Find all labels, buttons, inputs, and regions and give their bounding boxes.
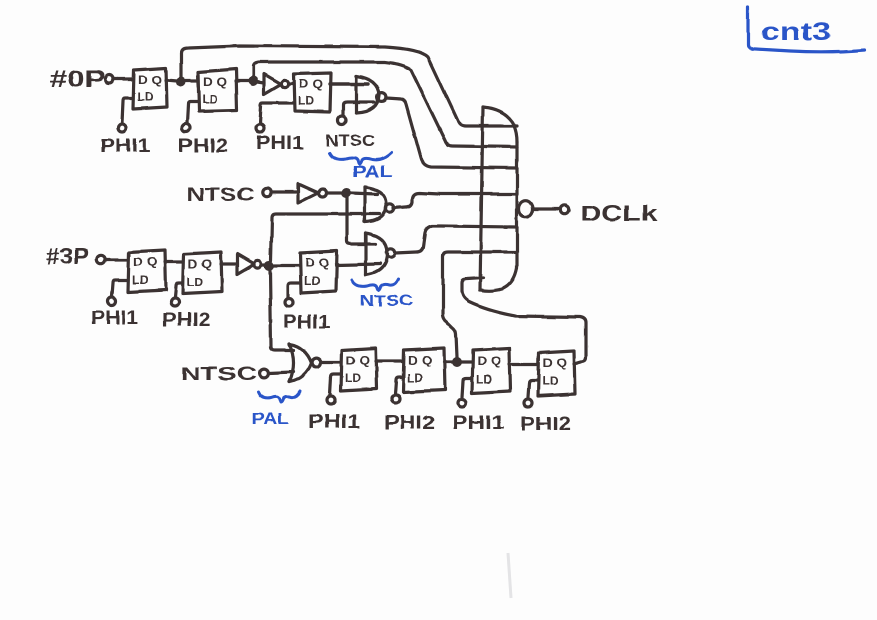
svg-text:D Q: D Q [203,75,227,89]
wire G3 output to big gate input 5 [395,226,517,253]
wire FF2 Q to node B [236,79,249,82]
svg-text:PAL: PAL [252,411,289,428]
D flip-flop FF4 (row2) [128,250,166,292]
svg-text:NTSC: NTSC [180,364,257,384]
brace PAL (row1, blue) [330,153,392,165]
terminal PHI2 (FF2) [182,124,190,132]
svg-text:PHI2: PHI2 [162,310,211,331]
big NOR gate G5 left edge [480,107,483,290]
svg-text:NTSC: NTSC [187,185,254,205]
big NOR gate G5 right edge [515,142,518,268]
cnt3 title box (blue) [748,7,864,52]
wire node E up to big gate input 6 [443,252,517,357]
wire FF3 Q to NAND G1 input 1 [330,82,368,85]
terminal PHI2 (FFB4) [524,399,532,407]
wire U1 to FF3 D [289,82,294,85]
svg-text:LD: LD [407,371,423,385]
node D junction [264,261,274,271]
svg-text:LD: LD [298,94,314,108]
wire FFB1 LD stub [330,374,341,395]
wire FF1 Q to node A [166,80,177,81]
NAND gate G1 (row1) [354,76,357,113]
terminal PHI2 (FF5) [171,298,179,306]
svg-text:#0P: #0P [50,66,105,93]
wire inner arc: node B up and over to big gate input 2 [253,62,517,147]
svg-text:D Q: D Q [188,257,212,271]
D flip-flop FFB1 (bottom) [341,348,377,391]
big NOR gate G5 top curve [483,107,517,142]
wire G2 output to big gate input 4 [393,193,517,208]
wire FF6 Q to NAND G3 input 2 [336,264,380,265]
wire NTSC terminal to G1 input 2 [343,102,374,116]
terminal NTSC (middle) [263,188,271,196]
terminal NTSC (row1 G1 input) [338,116,346,124]
wire FFB3 LD stub [462,378,472,397]
svg-text:D Q: D Q [299,77,323,91]
wire FF4 LD stub [112,280,128,296]
terminal PHI1 (FF3) [256,124,264,132]
inverter U3 (row2) [237,254,254,274]
svg-text:DCLk: DCLk [580,201,658,226]
terminal #3P [97,256,105,264]
svg-text:D Q: D Q [543,356,567,370]
NAND gate G3 (middle lower) [364,233,367,275]
wire #0P to FF1 [113,77,133,80]
wire FF4 Q to FF5 D [165,260,183,263]
svg-text:LD: LD [345,371,361,385]
wire FF6 LD stub [288,283,300,297]
wire node A to FF2 D [185,79,198,82]
wire FF5 Q to inverter U3 [221,262,237,265]
terminal DCLK [560,205,568,213]
wire #3P to FF4 [106,258,128,261]
D flip-flop FF3 (row1) [294,73,331,112]
terminal NTSC (bottom) [260,369,269,378]
D flip-flop FFB4 (bottom) [538,351,575,396]
svg-text:D Q: D Q [138,73,162,87]
svg-text:LD: LD [476,372,492,386]
brace PAL (bottom, blue) [258,391,300,402]
terminal PHI1 (FFB1) [327,396,335,404]
terminal #0P [105,75,113,83]
svg-text:PAL: PAL [352,164,393,181]
wire G4 output to FFB1 [321,360,341,363]
svg-text:LD: LD [202,92,218,106]
D flip-flop FF6 (row2) [300,251,337,293]
svg-text:PHI1: PHI1 [283,312,330,333]
wire node D to FF6 D [274,264,300,267]
svg-text:NTSC: NTSC [326,132,375,150]
terminal PHI1 (FF4) [108,297,116,305]
wire FF2 LD stub [187,102,198,123]
wire node C to NAND G2 input 1 [350,193,377,194]
svg-text:LD: LD [542,374,558,388]
wire node B to inverter U1 [257,82,264,83]
big NOR gate G5 bottom curve [481,268,517,291]
svg-text:PHI1: PHI1 [256,133,304,154]
svg-text:LD: LD [137,90,153,104]
D flip-flop FF5 (row2) [183,252,222,294]
big NOR gate G5 output bubble [519,201,533,218]
node A junction [176,77,186,87]
terminal PHI1 (FF6) [285,298,293,306]
wire FFB3 Q to FFB4 D [509,362,538,365]
svg-text:D Q: D Q [133,255,157,269]
svg-text:cnt3: cnt3 [761,18,831,46]
svg-text:PHI1: PHI1 [308,412,361,433]
D flip-flop FF2 (row1) [198,69,237,111]
inverter U2 (middle) [298,184,318,203]
inverter U1 (row1) [264,74,281,94]
svg-text:PHI1: PHI1 [91,308,138,329]
terminal PHI1 (FFB3) [458,399,466,407]
svg-text:PHI2: PHI2 [178,136,228,157]
D flip-flop FFB2 (bottom) [403,348,445,392]
node C junction [341,188,351,198]
wire node D down to NOR G4 input 1 [270,271,293,350]
svg-text:LD: LD [132,273,148,287]
wire U3 to node D [261,263,264,266]
node E junction [452,357,462,367]
svg-text:PHI2: PHI2 [520,414,571,435]
brace NTSC (middle, blue) [352,279,398,290]
wire FFB2 Q to node E [444,360,452,363]
node B junction [248,76,258,86]
svg-text:#3P: #3P [46,243,89,269]
wire FF1 LD stub [122,98,133,123]
D flip-flop FF1 (row1) [133,68,167,109]
faint scan smudge [508,553,511,598]
svg-text:LD: LD [304,274,320,288]
wire FFB1 Q to FFB2 D [376,359,403,362]
wire node D up to NAND G2 input 2 [271,214,379,261]
svg-text:PHI1: PHI1 [452,413,506,434]
D flip-flop FFB3 (bottom) [472,348,510,393]
wire node C down to NAND G3 input 1 [347,197,375,244]
wire FFB2 LD stub [395,377,403,394]
wire NTSC terminal to inverter U2 [271,190,298,193]
terminal PHI1 (FF1) [118,124,126,132]
wire FFB4 Q feedback up and around to big gate input 7 [462,278,586,364]
NAND gate G2 (middle upper) [363,187,366,222]
svg-text:D Q: D Q [305,256,329,270]
wire G1 output down to big gate input 3 [386,98,517,168]
svg-text:NTSC: NTSC [360,293,413,310]
svg-text:LD: LD [187,275,203,289]
svg-text:D Q: D Q [477,354,501,368]
wire NTSC terminal to NOR G4 input 2 [269,372,293,373]
svg-text:PHI2: PHI2 [384,413,435,434]
wire U2 to node C [327,191,341,194]
wire FF5 LD stub [175,283,183,297]
wire G5 output to DCLK terminal [534,207,560,210]
wire outer arc: node A up and over to big gate input 1 [181,46,517,126]
svg-text:PHI1: PHI1 [100,136,151,157]
wire node E to FFB3 D [462,360,472,363]
wire FFB4 LD stub [528,380,538,397]
svg-text:D Q: D Q [346,353,370,367]
wire FF3 LD stub [260,103,294,123]
svg-text:D Q: D Q [408,353,432,367]
NOR gate G4 (bottom) [289,344,293,382]
terminal PHI2 (FFB2) [392,395,400,403]
